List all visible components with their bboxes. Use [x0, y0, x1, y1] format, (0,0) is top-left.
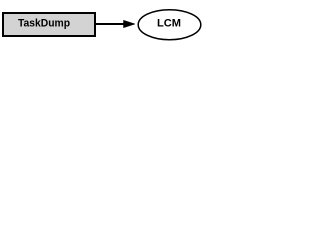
- svg-text:LCM: LCM: [157, 18, 181, 30]
- svg-text:TaskDump: TaskDump: [18, 18, 70, 30]
- arrowhead: [124, 20, 136, 27]
- node TaskDump (box): [3, 13, 95, 36]
- node LCM (ellipse): [138, 10, 201, 40]
- edge TaskDump->LCM (wire/shaft): [95, 23, 125, 25]
